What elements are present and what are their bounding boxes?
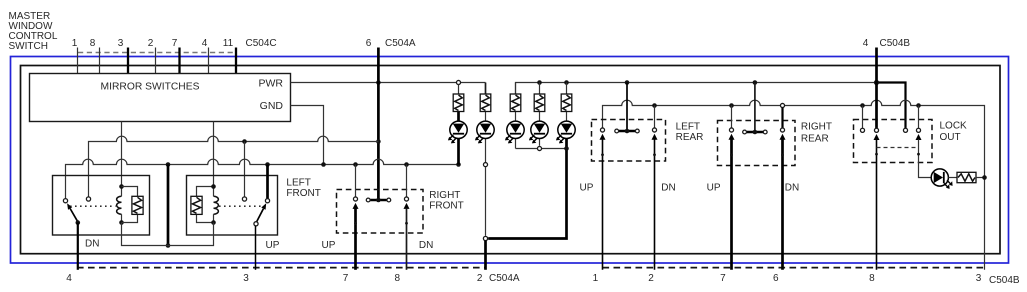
svg-text:OUT: OUT (940, 132, 961, 143)
svg-text:7: 7 (720, 273, 726, 284)
wire: front contact feed (crossovers at coil feeds and GND) (89, 136, 379, 196)
pivot dot: right-rear UP (730, 154, 733, 157)
pivot dot: left-rear UP (601, 153, 604, 156)
junction: coil DN top (119, 184, 124, 189)
pivot dot: right-front UP (354, 222, 357, 225)
junction: rear power / LED D (537, 80, 542, 85)
lock out switch box (dashed) (854, 120, 933, 163)
svg-text:LEFT: LEFT (286, 177, 310, 188)
wire: LED A column (458, 84, 460, 94)
wire: LED B column (485, 112, 487, 122)
junction: PWR / pin6 (376, 80, 381, 85)
LED lockout indicator (931, 169, 948, 186)
junction: coil return / riser (166, 243, 171, 248)
contact: left-rear UP (600, 128, 604, 132)
svg-text:LEFT: LEFT (676, 122, 700, 133)
rocker bar: right rear (747, 131, 763, 133)
switch arm UP (257, 209, 264, 222)
resistor: LED C (510, 94, 521, 112)
svg-text:8: 8 (90, 38, 96, 49)
resistor: LED A (453, 94, 464, 112)
terminal ring: pin 2 node (483, 236, 487, 240)
wire: LED to resistor (948, 177, 957, 179)
wire: lockout output to pin 8 (C504B) (876, 139, 878, 269)
wire: resistor to bus drop (976, 177, 985, 179)
wire: left-rear UP output to pin 1 (C504B) (602, 139, 604, 270)
svg-text:3: 3 (976, 273, 982, 284)
pivot dot: right-front DN (405, 222, 408, 225)
LED B (illumination) (477, 121, 494, 138)
resistor: lockout indicator (957, 172, 976, 182)
wire: right-front DN output to pin 8 (C504A) (406, 208, 408, 270)
shunt resistor DN (132, 196, 143, 214)
wire: LED B cathode to pin 2 node (485, 167, 487, 236)
pin 2 stub wire (C504C) (155, 48, 157, 74)
svg-text:1: 1 (593, 273, 599, 284)
connector C504C dashed boundary (top) (78, 52, 236, 54)
junction: GND bus / left-front UP pivot feed (265, 162, 270, 167)
relay coil UP (214, 196, 219, 214)
svg-text:1: 1 (72, 38, 78, 49)
svg-text:FRONT: FRONT (429, 201, 463, 212)
wire: GND bus (wire2) with crossovers (66, 159, 459, 198)
wire: pin 2 column (C504A) (484, 241, 487, 270)
junction: rear power / right-rear rocker feed (753, 80, 758, 85)
wire: mirror box to left-front DN coil (121, 122, 123, 187)
resistor: LED D (534, 94, 545, 112)
right front switch box (dashed) (337, 190, 424, 234)
rocker end contact right (left rear) (635, 129, 639, 133)
contact: right-rear DN (780, 128, 784, 132)
svg-text:11: 11 (223, 38, 234, 49)
contact: UP pivot (265, 199, 269, 203)
svg-text:2: 2 (148, 38, 154, 49)
contact: DN normally-open (86, 197, 90, 201)
wire: right-rear UP contact feed (731, 106, 733, 128)
terminal ring: LED A top (456, 80, 460, 84)
junction: resistor / bus drop (982, 175, 987, 180)
LED C (illumination) (507, 121, 524, 138)
pivot dot: left-rear DN (653, 153, 656, 156)
mechanical link (dotted) DN (70, 205, 116, 207)
pin 4 stub wire (C504C) (208, 48, 210, 74)
rocker end contact left (right rear) (743, 130, 747, 134)
rocker end contact right (387, 198, 391, 202)
svg-text:DN: DN (661, 183, 675, 194)
junction: coil DN bottom (119, 220, 124, 225)
movable contact arrow: right-rear UP (729, 134, 735, 140)
wire: right-front UP output to pin 7 (C504A) (354, 208, 357, 270)
pin 11 stub wire (C504C) (235, 48, 237, 74)
wire: left-rear DN output to pin 2 (C504B) (654, 139, 656, 270)
pin 8 stub wire (C504C) (99, 48, 101, 74)
LED D (illumination) (531, 121, 548, 138)
wire: pin 4 C504B column (875, 48, 878, 129)
relay coil DN (117, 196, 122, 214)
junction: rear power / pin 4 column (874, 80, 879, 85)
movable contact arrow: right-front DN (404, 203, 410, 209)
pin 3 stub wire (C504C) (127, 48, 129, 74)
contact: right-rear UP (729, 128, 733, 132)
svg-text:SWITCH: SWITCH (9, 41, 48, 52)
svg-text:UP: UP (707, 183, 721, 194)
resistor: LED B (480, 94, 491, 112)
pivot dot: lockout 2 (875, 153, 878, 156)
svg-text:4: 4 (863, 38, 869, 49)
terminal ring: LED B cathode (483, 163, 487, 167)
connector C504A dashed boundary (bottom) (77, 267, 486, 269)
svg-text:FRONT: FRONT (286, 188, 320, 199)
svg-text:MIRROR SWITCHES: MIRROR SWITCHES (101, 82, 200, 93)
svg-text:REAR: REAR (676, 132, 704, 143)
junction: pin6 / wire to front switch contacts (376, 139, 381, 144)
resistor: LED E (561, 94, 572, 112)
contact: UP normally-open (242, 197, 246, 201)
svg-text:2: 2 (648, 273, 654, 284)
wire: DN output to pin 4 (C504A) (77, 223, 79, 270)
svg-text:4: 4 (66, 273, 72, 284)
svg-text:LOCK: LOCK (940, 120, 968, 131)
shunt resistor DN loop (122, 187, 138, 223)
pivot dot: lockout 4 (917, 153, 920, 156)
svg-text:C504A: C504A (385, 38, 416, 49)
contact: lockout 2 (movable) (874, 128, 878, 132)
junction: LED E cathode / return (564, 146, 569, 151)
svg-text:REAR: REAR (801, 134, 829, 145)
wire: left-rear DN contact feed (654, 106, 656, 128)
svg-text:UP: UP (322, 240, 336, 251)
rocker end contact left (366, 198, 370, 202)
wire: rear contact bus with crossovers (603, 100, 985, 270)
svg-text:7: 7 (343, 273, 349, 284)
contact: lockout 3 (903, 128, 907, 132)
wire: LED C column (515, 83, 517, 95)
wire: right-rear DN output to pin 6 (C504B) (781, 139, 784, 270)
movable contact arrow: lockout indicator (916, 134, 922, 140)
contact: lockout 4 (movable) (916, 128, 920, 132)
svg-text:DN: DN (785, 183, 799, 194)
wire: LED group2 return to pin 2 node (488, 149, 566, 239)
rocker end contact right (right rear) (763, 130, 767, 134)
pivot dot: right-rear DN (781, 154, 784, 157)
mirror switches box (30, 74, 291, 122)
rocker end contact left (left rear) (615, 129, 619, 133)
junction: front contact feed / left-front UP contact branch (242, 139, 247, 144)
right rear switch box (dashed) (718, 121, 796, 166)
wire: branch to left-front UP contact (244, 142, 246, 197)
wire: coil return path (122, 223, 214, 246)
junction: rear bus / lockout contact 1 (860, 103, 865, 108)
contact: right-front DN (404, 197, 408, 201)
contact: DN pivot (63, 199, 67, 203)
shunt resistor UP (191, 196, 202, 214)
junction: rear power / left-rear rocker feed (625, 80, 630, 85)
LED A (illumination) (450, 121, 467, 138)
junction: GND bus / right-front DN contact (404, 162, 409, 167)
terminal ring: rear bus / right-rear DN contact (780, 103, 784, 107)
terminal ring: LED D cathode (537, 146, 541, 150)
movable contact arrow: right-front UP (353, 203, 359, 209)
rocker bar: left rear (619, 130, 635, 132)
outer blue border (11, 57, 1009, 264)
wire: LED group2 cathode bus (516, 148, 567, 150)
svg-text:PWR: PWR (259, 78, 284, 90)
svg-text:C504A: C504A (489, 273, 520, 284)
pin 7 stub wire (C504C) (178, 48, 180, 74)
connector C504B dashed boundary (bottom) (603, 267, 986, 269)
wire: pin 6 C504A power column (377, 48, 380, 201)
wire: rear power distribution (from pin 4 C504B) (516, 83, 877, 95)
junction: rear bus / right-rear UP contact (729, 103, 734, 108)
movable contact arrow: left-rear UP (600, 134, 606, 140)
outer black component box (21, 66, 1001, 254)
svg-text:8: 8 (869, 273, 875, 284)
contact: left-rear DN (652, 128, 656, 132)
wire: right-rear UP output to pin 7 (C504B) (730, 139, 733, 270)
wire: right-rear DN contact feed (781, 108, 783, 128)
svg-text:C504B: C504B (880, 38, 911, 49)
svg-text:3: 3 (118, 38, 124, 49)
terminal ring: UP output (254, 222, 258, 226)
svg-text:DN: DN (85, 239, 99, 250)
wire: right-rear rocker feed (754, 83, 756, 133)
movable contact arrow: left-rear DN (652, 134, 658, 140)
left front DN switch box (53, 176, 150, 236)
junction: rear bus / lockout contact 4 (916, 103, 921, 108)
svg-text:6: 6 (773, 273, 779, 284)
wire: LED D column (539, 83, 541, 95)
svg-text:4: 4 (202, 38, 208, 49)
wire: coil return riser (167, 165, 170, 246)
svg-text:C504B: C504B (989, 275, 1020, 286)
wire: GND from mirror box (291, 106, 324, 165)
svg-text:UP: UP (580, 183, 594, 194)
mechanical link (dotted) UP (219, 205, 261, 207)
wire: lockout contact 4 feed (918, 106, 920, 129)
mechanical link (dashed) lockout (877, 147, 919, 149)
junction: coil UP top (211, 184, 216, 189)
wire: right-front DN contact feed (406, 165, 408, 197)
junction: left-rear rocker center (625, 129, 630, 134)
pin 1 stub wire (C504C) (77, 48, 79, 74)
shunt resistor UP loop (197, 187, 214, 223)
switch arm DN (70, 208, 78, 221)
movable contact arrow: lockout (874, 134, 880, 140)
svg-text:GND: GND (260, 100, 284, 112)
wire: UP pivot feed (266, 165, 269, 199)
junction: GND bus / right-front UP contact (353, 162, 358, 167)
junction: GND bus / GND drop (321, 162, 326, 167)
wire: LED B top stub (485, 83, 487, 95)
movable contact arrow: right-rear DN (780, 134, 786, 140)
junction: rear power / LED E (564, 80, 569, 85)
junction: rear bus / left-rear DN contact (652, 103, 657, 108)
left rear switch box (dashed) (592, 120, 666, 162)
svg-text:RIGHT: RIGHT (801, 122, 832, 133)
svg-text:7: 7 (172, 38, 178, 49)
wire: mirror box to left-front UP coil (213, 122, 215, 187)
wire: right-front UP contact feed (355, 165, 357, 197)
LED E (illumination) (558, 121, 575, 138)
contact: lockout 1 (860, 128, 864, 132)
rocker bar: right front (370, 199, 386, 201)
svg-text:6: 6 (366, 38, 372, 49)
junction: DN arm output (76, 220, 81, 225)
junction: GND bus / coil return riser (166, 162, 171, 167)
wire: lockout contact 1 feed (862, 106, 864, 129)
svg-text:UP: UP (266, 240, 280, 251)
wire: lockout indicator drop (919, 139, 932, 177)
svg-text:RIGHT: RIGHT (429, 190, 460, 201)
svg-text:2: 2 (477, 273, 483, 284)
svg-text:DN: DN (419, 240, 433, 251)
junction: GND bus / LED A cathode (456, 162, 461, 167)
left front UP switch box (187, 176, 278, 236)
wire: PWR feed to illumination LEDs A/B (291, 82, 486, 84)
svg-text:C504C: C504C (246, 38, 277, 49)
svg-text:8: 8 (395, 273, 401, 284)
svg-text:3: 3 (243, 273, 249, 284)
contact: right-front UP (353, 197, 357, 201)
wire: rear power elbow to lockout contact 3 (877, 83, 906, 131)
junction: rocker center / pin 6 (376, 198, 381, 203)
junction: coil UP bottom (211, 220, 216, 225)
wire: UP output to pin 3 (C504A) (255, 226, 257, 270)
junction: right-rear rocker center (753, 130, 758, 135)
wire: left-rear rocker feed (626, 83, 628, 132)
wire: LED E column (566, 83, 568, 95)
